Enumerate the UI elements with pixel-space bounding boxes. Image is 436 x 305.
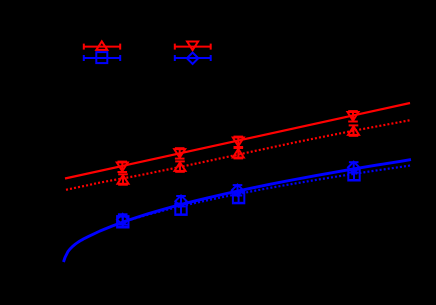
marker triangle-up 4 — [348, 126, 359, 135]
error bar blue series1 point 3 — [234, 192, 244, 202]
red dotted line — [66, 120, 411, 190]
error bar red series2 point 3 — [234, 148, 244, 158]
error bar blue series1 point 4 — [349, 170, 359, 180]
error bar blue series1 point 1 — [118, 217, 128, 227]
marker diamond 3 — [232, 185, 243, 196]
marker diamond 4 — [348, 162, 359, 173]
error bar red series2 point 4 — [349, 125, 359, 135]
error bar blue series1 point 2 — [176, 204, 186, 214]
marker square 2 — [175, 204, 186, 215]
blue dotted line — [78, 166, 410, 243]
marker triangle-down 4 — [348, 112, 359, 121]
error bar red series1 point 4 — [348, 111, 358, 121]
error bar red series1 point 2 — [175, 148, 185, 158]
marker square 1 — [117, 216, 128, 227]
legend entry 4: blue errorbar with diamond — [174, 53, 212, 64]
legend entry 1: red errorbar with triangle-up — [83, 41, 121, 50]
marker triangle-down 2 — [174, 149, 185, 158]
legend entry 3: red errorbar with triangle-down — [174, 42, 212, 51]
legend entry 2: blue errorbar with square — [83, 52, 121, 63]
error bar blue series2 point 3 — [233, 185, 243, 195]
blue solid curve — [64, 160, 412, 262]
marker diamond 2 — [175, 196, 186, 207]
marker triangle-up 2 — [175, 162, 186, 171]
marker diamond 1 — [117, 214, 128, 225]
marker triangle-down 1 — [117, 163, 128, 172]
error bar blue series2 point 2 — [176, 196, 186, 206]
red solid line — [65, 103, 410, 179]
marker triangle-up 1 — [118, 175, 129, 184]
error bar red series2 point 2 — [175, 161, 185, 171]
marker triangle-down 3 — [233, 138, 244, 147]
error bar red series2 point 1 — [118, 174, 128, 184]
error bar blue series2 point 1 — [118, 214, 128, 224]
error bar red series1 point 1 — [118, 162, 128, 172]
marker square 3 — [233, 192, 244, 203]
error bar red series1 point 3 — [234, 137, 244, 147]
marker triangle-up 3 — [233, 149, 244, 158]
marker square 4 — [348, 169, 359, 180]
error bar blue series2 point 4 — [349, 162, 359, 172]
